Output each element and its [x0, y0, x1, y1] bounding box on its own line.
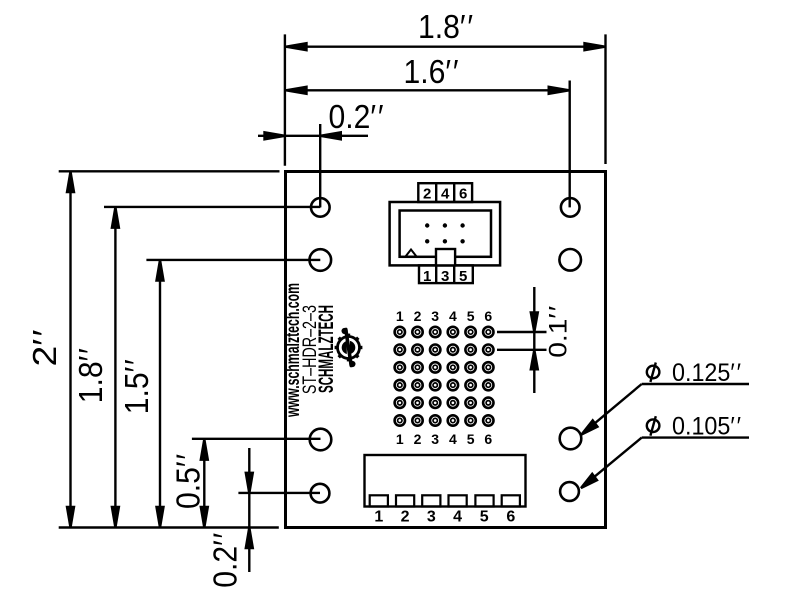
svg-text:2′′: 2′′ [26, 330, 63, 367]
svg-text:1: 1 [396, 308, 404, 324]
hole left-4 0.105 [311, 484, 330, 503]
svg-text:1: 1 [423, 268, 431, 285]
svg-text:2: 2 [414, 308, 422, 324]
svg-text:5: 5 [480, 509, 489, 526]
svg-text:0.125′′: 0.125′′ [672, 359, 741, 387]
hole left-2 0.125 [310, 249, 332, 271]
svg-text:2: 2 [414, 431, 422, 447]
svg-text:1.8′′: 1.8′′ [72, 348, 109, 403]
svg-text:3: 3 [427, 509, 436, 526]
svg-text:1.5′′: 1.5′′ [118, 359, 155, 414]
svg-text:2: 2 [401, 509, 410, 526]
connector J1 key tab [436, 249, 455, 265]
svg-text:0.5′′: 0.5′′ [170, 454, 207, 509]
dimension 0.1 inch grid pitch [497, 287, 547, 393]
svg-text:1.8′′: 1.8′′ [418, 8, 473, 45]
callout text dia 0.105 inch [647, 413, 741, 441]
connector J1 bottom pin label boxes 1 3 5 [419, 265, 473, 283]
dimension 1.5 inch left [146, 260, 320, 528]
svg-text:2: 2 [423, 186, 431, 203]
dimension 0.5 inch left [192, 439, 321, 528]
svg-text:3: 3 [431, 308, 439, 324]
svg-text:0.105′′: 0.105′′ [672, 413, 741, 441]
svg-text:1: 1 [396, 431, 404, 447]
connector J1 outer body [390, 202, 501, 265]
connector J1 pin dots [425, 223, 465, 243]
svg-text:6: 6 [459, 186, 467, 203]
dimension 2 inch left [59, 171, 280, 527]
silkscreen gear logo [335, 328, 363, 367]
svg-text:4: 4 [449, 308, 457, 324]
pad grid column numbers bottom [396, 431, 493, 447]
dimension 1.8 inch left [104, 207, 320, 528]
svg-text:5: 5 [467, 308, 475, 324]
hole top-right 0.105 [561, 198, 580, 217]
terminal block pin squares [370, 495, 520, 506]
svg-text:5: 5 [459, 268, 467, 285]
dimension 1.6 inch top [286, 81, 570, 208]
hole left-3 0.125 [310, 429, 332, 451]
svg-text:0.2′′: 0.2′′ [207, 533, 244, 588]
svg-text:3: 3 [441, 268, 449, 285]
hole right-4 0.105 [560, 482, 579, 501]
dimension 0.2 inch top [258, 124, 368, 207]
svg-text:4: 4 [449, 431, 457, 447]
hole right-2 0.125 [559, 249, 581, 271]
terminal block pin numbers 1-6 [374, 509, 515, 526]
pad grid column numbers top [396, 308, 493, 324]
svg-text:1.6′′: 1.6′′ [404, 53, 459, 90]
svg-text:3: 3 [431, 431, 439, 447]
svg-text:6: 6 [484, 308, 492, 324]
callout text dia 0.125 inch [647, 359, 741, 387]
leader 0.125 hole callout [582, 384, 750, 435]
leader 0.105 hole callout [581, 438, 749, 488]
prototyping pad grid 6x6 [395, 327, 494, 426]
terminal block outer body [365, 455, 526, 507]
dimension 0.2 inch bottom-left [238, 448, 320, 572]
svg-text:4: 4 [453, 509, 462, 526]
hole right-3 0.125 [560, 428, 582, 450]
board outline [286, 172, 606, 528]
svg-text:1: 1 [374, 509, 383, 526]
svg-text:6: 6 [506, 509, 515, 526]
svg-text:5: 5 [467, 431, 475, 447]
svg-text:4: 4 [441, 186, 450, 203]
connector J1 pin-1 triangle marker [406, 250, 417, 257]
connector J1 top pin label boxes 2 4 6 [418, 183, 472, 202]
dimension 1.8 inch top [285, 34, 606, 165]
connector J1 inner body [400, 211, 491, 257]
hole top-left 0.105 [311, 198, 330, 217]
svg-text:6: 6 [484, 431, 492, 447]
svg-text:0.2′′: 0.2′′ [329, 98, 384, 135]
svg-text:SCHMALZTECH: SCHMALZTECH [315, 305, 338, 393]
